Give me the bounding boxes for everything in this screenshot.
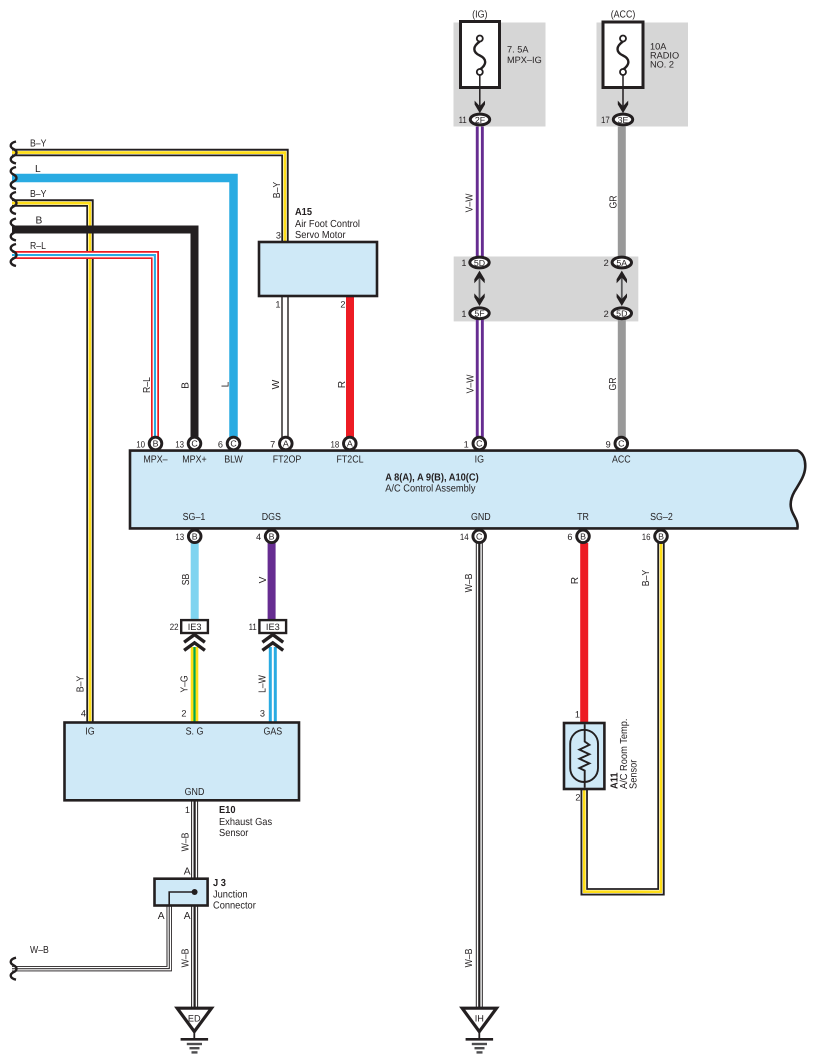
connector 2 (5D lower) <box>612 308 631 319</box>
wire W-B branch from J3 pin A to off-page <box>12 905 169 969</box>
wire L-W from IE3 to E10 pin 3 GAS <box>269 647 277 723</box>
svg-text:Junction: Junction <box>213 890 248 901</box>
junction connector J3 box <box>155 879 208 906</box>
svg-text:3: 3 <box>276 231 281 241</box>
svg-text:13: 13 <box>175 532 184 542</box>
svg-text:E10: E10 <box>219 805 236 816</box>
svg-text:17: 17 <box>601 115 610 125</box>
J3 junction node <box>192 889 198 895</box>
off-page squiggle for wire W-B (bottom left) <box>11 958 17 980</box>
svg-text:1: 1 <box>275 300 280 310</box>
A11 resistor element <box>579 724 589 787</box>
svg-text:GND: GND <box>185 787 205 798</box>
svg-text:W–B: W–B <box>30 945 49 956</box>
svg-text:R–L: R–L <box>30 241 46 252</box>
svg-text:1: 1 <box>461 309 466 319</box>
svg-text:ED: ED <box>188 1014 201 1024</box>
wire R assembly pin TR to A11 pin 1 <box>580 543 588 723</box>
svg-text:14: 14 <box>460 532 469 542</box>
svg-text:1: 1 <box>185 805 190 815</box>
svg-text:B: B <box>181 382 192 389</box>
svg-text:18: 18 <box>331 439 340 449</box>
svg-text:3E: 3E <box>618 115 629 125</box>
svg-text:A/C Control Assembly: A/C Control Assembly <box>385 484 476 495</box>
svg-text:B: B <box>153 439 159 449</box>
fuse block IG shading <box>454 23 546 127</box>
svg-text:MPX+: MPX+ <box>182 455 206 466</box>
wire L from off-page to A/C control assembly pin BLW <box>12 178 234 437</box>
servo motor A15 box <box>259 242 377 296</box>
svg-text:5F: 5F <box>474 309 485 319</box>
wire V-W connector 5F to assembly pin IG <box>476 318 484 437</box>
connector 1 (5F) <box>470 308 489 319</box>
svg-text:B–Y: B–Y <box>30 189 47 200</box>
svg-text:2: 2 <box>604 309 609 319</box>
svg-text:J 3: J 3 <box>213 878 226 889</box>
svg-text:SB: SB <box>181 574 192 586</box>
svg-text:B–Y: B–Y <box>76 676 87 693</box>
svg-text:B: B <box>192 532 198 542</box>
fuse ACC 10A RADIO NO.2 <box>603 22 643 88</box>
svg-text:22: 22 <box>170 622 179 632</box>
connector 17 (3E) <box>613 114 632 125</box>
svg-text:MPX–IG: MPX–IG <box>507 55 542 65</box>
svg-text:B: B <box>580 532 586 542</box>
svg-text:R: R <box>570 577 581 584</box>
svg-text:R: R <box>337 381 348 388</box>
svg-text:B: B <box>36 216 43 227</box>
svg-text:4: 4 <box>81 709 86 719</box>
svg-text:2: 2 <box>575 793 580 803</box>
svg-text:B: B <box>269 532 275 542</box>
svg-text:6: 6 <box>218 439 223 449</box>
svg-text:V–W: V–W <box>466 374 477 393</box>
pin 16 (B) SG-2 <box>655 530 668 543</box>
svg-text:1: 1 <box>461 258 466 268</box>
svg-text:DGS: DGS <box>262 512 281 523</box>
svg-text:BLW: BLW <box>224 455 243 466</box>
wire GR fuse 3E to connector 5A <box>618 127 626 257</box>
wire Y-G from IE3 to E10 pin 2 S.G <box>191 647 199 723</box>
arrow link between 5D and 5F <box>479 276 481 300</box>
svg-text:16: 16 <box>642 532 651 542</box>
svg-text:FT2OP: FT2OP <box>273 455 302 466</box>
svg-text:10: 10 <box>136 439 145 449</box>
wire W-B from E10 pin 1 GND through J3 to ground ED <box>191 800 198 1009</box>
svg-text:7: 7 <box>270 439 275 449</box>
wire B-Y from off-page to A15 pin 3 <box>12 153 285 244</box>
svg-text:C: C <box>618 439 625 449</box>
A/C room temp sensor A11 box <box>564 723 604 789</box>
svg-text:V: V <box>258 576 269 583</box>
svg-text:A: A <box>184 867 191 878</box>
svg-text:6: 6 <box>567 532 572 542</box>
svg-text:Connector: Connector <box>213 901 256 912</box>
svg-text:B: B <box>658 532 664 542</box>
junction block shading (5D/5A/5F/5D) <box>454 257 639 322</box>
svg-text:S. G: S. G <box>186 727 204 738</box>
svg-text:IH: IH <box>475 1014 484 1024</box>
pin 13 (B) SG-1 <box>188 530 201 543</box>
pin 13 (C) MPX+ <box>188 437 201 450</box>
wire R-L from off-page to A/C control assembly pin MPX- <box>12 255 155 437</box>
shield chevrons above Y-G <box>184 635 205 651</box>
off-page squiggle for wire B-Y (second) <box>11 192 17 214</box>
svg-text:B–Y: B–Y <box>30 139 47 150</box>
svg-text:13: 13 <box>175 439 184 449</box>
A11 designator and name (rotated) <box>610 719 640 790</box>
svg-text:C: C <box>476 439 483 449</box>
svg-text:IG: IG <box>85 727 94 738</box>
svg-text:V–W: V–W <box>465 193 476 212</box>
svg-text:A: A <box>184 911 191 922</box>
wire V assembly pin DGS to connector IE3 pin 11 <box>268 543 276 621</box>
svg-text:Y–G: Y–G <box>179 675 190 692</box>
svg-text:5D: 5D <box>474 258 485 268</box>
svg-text:2F: 2F <box>475 115 486 125</box>
fuse block ACC shading <box>597 23 689 127</box>
svg-text:1: 1 <box>575 710 580 720</box>
wire B from off-page to A/C control assembly pin MPX+ <box>12 230 195 438</box>
svg-text:W–B: W–B <box>464 948 475 967</box>
svg-text:ACC: ACC <box>612 455 631 466</box>
svg-text:IE3: IE3 <box>266 622 280 632</box>
svg-text:C: C <box>476 532 483 542</box>
svg-text:L: L <box>35 164 41 175</box>
svg-text:9: 9 <box>606 439 611 449</box>
wire W from A15 pin 1 to assembly pin FT2OP <box>281 296 288 437</box>
svg-text:1: 1 <box>464 439 469 449</box>
svg-text:(IG): (IG) <box>472 10 487 21</box>
A11 thermistor capsule <box>570 730 598 782</box>
shield chevrons above L-W <box>262 635 283 651</box>
off-page squiggle for wire L <box>11 167 17 189</box>
svg-text:GR: GR <box>608 378 619 391</box>
pin 9 (C) ACC <box>615 437 628 450</box>
pin 1 (C) IG <box>473 437 486 450</box>
exhaust gas sensor E10 box <box>65 723 300 801</box>
svg-text:A 8(A), A 9(B), A10(C): A 8(A), A 9(B), A10(C) <box>385 473 479 484</box>
svg-text:Servo Motor: Servo Motor <box>295 230 346 241</box>
off-page squiggle for wire R-L <box>11 244 17 266</box>
svg-text:SG–1: SG–1 <box>183 512 206 523</box>
svg-text:2: 2 <box>604 258 609 268</box>
svg-text:GND: GND <box>471 512 491 523</box>
svg-text:GAS: GAS <box>263 727 282 738</box>
svg-text:4: 4 <box>256 532 261 542</box>
svg-text:GR: GR <box>609 196 620 209</box>
svg-text:A: A <box>283 439 289 449</box>
svg-text:5A: 5A <box>616 258 627 268</box>
svg-text:A: A <box>347 439 353 449</box>
svg-text:TR: TR <box>577 512 589 523</box>
svg-text:FT2CL: FT2CL <box>336 455 363 466</box>
svg-text:2: 2 <box>181 709 186 719</box>
svg-text:IG: IG <box>475 455 484 466</box>
pin 4 (B) DGS <box>265 530 278 543</box>
svg-text:NO. 2: NO. 2 <box>650 60 674 70</box>
wire B-Y from A11 pin 2 to assembly pin SG-2 <box>584 543 661 892</box>
pin 6 (B) TR <box>577 530 590 543</box>
ground ED symbol <box>177 1008 211 1052</box>
wire W-B assembly pin GND to ground IH <box>476 543 483 1009</box>
wire V-W fuse 2F to connector 5D <box>476 127 484 257</box>
svg-text:Sensor: Sensor <box>629 759 640 789</box>
svg-text:L: L <box>221 381 232 387</box>
pin 14 (C) GND <box>473 530 486 543</box>
svg-text:W–B: W–B <box>181 948 192 967</box>
ground IH symbol <box>462 1008 496 1052</box>
svg-text:C: C <box>191 439 198 449</box>
wire GR connector 5D to assembly pin ACC <box>618 318 626 437</box>
svg-text:A: A <box>158 911 165 922</box>
pin 18 (A) FT2CL <box>344 437 357 450</box>
svg-text:MPX–: MPX– <box>143 455 167 466</box>
pin 6 (C) BLW <box>227 437 240 450</box>
svg-text:11: 11 <box>459 115 467 125</box>
svg-text:2: 2 <box>340 300 345 310</box>
connector 11 (2F) <box>470 114 489 125</box>
wire SB assembly pin SG-1 to connector IE3 pin 22 <box>191 543 199 621</box>
svg-text:R–L: R–L <box>142 377 153 393</box>
svg-text:5D: 5D <box>616 309 627 319</box>
svg-text:SG–2: SG–2 <box>650 512 673 523</box>
svg-text:W–B: W–B <box>181 832 192 851</box>
wire R from A15 pin 2 to assembly pin FT2CL <box>346 296 354 437</box>
svg-text:Sensor: Sensor <box>219 828 249 839</box>
connector 11 IE3 <box>259 620 286 633</box>
wire B-Y from off-page to E10 pin 4 IG <box>12 203 90 723</box>
connector 1 (5D) <box>470 257 489 268</box>
svg-text:Air Foot Control: Air Foot Control <box>295 219 360 230</box>
svg-text:7. 5A: 7. 5A <box>507 45 529 55</box>
A/C control assembly box A8/A9/A10 <box>130 451 805 529</box>
svg-text:B–Y: B–Y <box>272 182 283 199</box>
svg-text:C: C <box>230 439 237 449</box>
svg-text:11: 11 <box>249 622 257 632</box>
pin 7 (A) FT2OP <box>280 437 293 450</box>
fuse IG 7.5A MPX-IG <box>461 22 500 88</box>
svg-text:IE3: IE3 <box>188 622 202 632</box>
J3 internal branch wire <box>169 892 194 905</box>
connector 22 IE3 <box>181 620 208 633</box>
svg-text:B–Y: B–Y <box>641 570 652 587</box>
svg-text:Exhaust Gas: Exhaust Gas <box>219 817 272 828</box>
svg-text:(ACC): (ACC) <box>611 10 636 21</box>
pin 10 (B) MPX- <box>149 437 162 450</box>
svg-text:L–W: L–W <box>258 675 269 693</box>
connector 2 (5A) <box>612 257 631 268</box>
svg-text:A15: A15 <box>295 207 312 218</box>
svg-text:3: 3 <box>260 709 265 719</box>
svg-text:W: W <box>271 379 282 389</box>
svg-text:W–B: W–B <box>464 573 475 592</box>
off-page squiggle for wire B-Y (top) <box>11 142 17 164</box>
off-page squiggle for wire B <box>11 219 17 241</box>
arrow link between 5A and 5D <box>621 276 623 300</box>
